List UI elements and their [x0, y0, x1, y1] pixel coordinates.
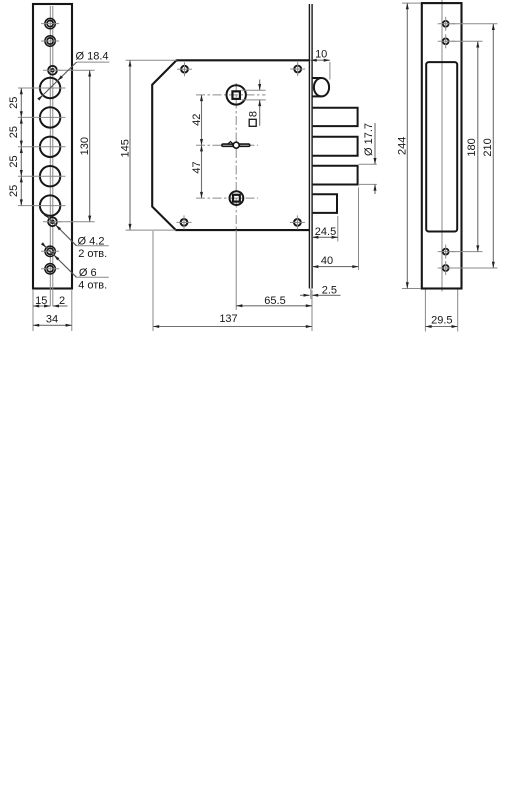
hole diam 4.2 bottom — [48, 217, 57, 226]
hole diam 18.4 number 3 — [40, 137, 60, 157]
dimension 244 extension bottom — [402, 288, 421, 290]
keyhole slot — [222, 142, 250, 149]
svg-text:25: 25 — [8, 155, 20, 167]
hole diam 18.4 number 1 — [40, 78, 60, 98]
centerline of hole 2 — [18, 116, 66, 118]
leader to hole 4.2 — [45, 214, 77, 246]
bolt 2 — [313, 137, 358, 156]
dimension 25 label 1 — [8, 97, 20, 109]
centerline of hole 5 — [18, 205, 66, 207]
svg-text:25: 25 — [8, 126, 20, 138]
svg-text:Ø 17.7: Ø 17.7 — [363, 123, 375, 156]
svg-text:24.5: 24.5 — [315, 226, 336, 238]
strike screw hole 4 — [443, 265, 449, 271]
dimension 180 — [477, 41, 479, 251]
lower spindle hub — [230, 191, 244, 205]
dimension diam 17.7 — [374, 123, 376, 164]
svg-text:2 отв.: 2 отв. — [78, 248, 107, 260]
dimension 24.5 extension — [337, 216, 339, 242]
countersunk screw hole bottom 1 — [45, 246, 55, 256]
body screw hole bottom-left — [181, 219, 188, 226]
dimension 42 — [201, 95, 203, 145]
svg-text:244: 244 — [396, 137, 408, 155]
forend strip left edge — [308, 4, 310, 289]
dimension 2 — [53, 305, 68, 307]
dimension 47 — [201, 145, 203, 198]
faceplate hole axis centerline — [49, 6, 51, 306]
dimension square 8 — [259, 80, 261, 91]
dimension 137 — [153, 326, 312, 328]
dimension 145 extension bottom — [126, 229, 176, 231]
dimension 25 label 4 — [8, 185, 20, 197]
svg-text:42: 42 — [191, 114, 203, 126]
svg-text:180: 180 — [466, 138, 478, 156]
dimension 130 extension lines — [57, 69, 95, 71]
upper spindle hub — [227, 85, 246, 104]
svg-text:137: 137 — [219, 313, 237, 325]
svg-text:15: 15 — [35, 295, 47, 307]
svg-text:2: 2 — [59, 295, 65, 307]
dimension 29.5 — [425, 326, 457, 328]
spindle centerline extension — [235, 230, 237, 310]
dimension 210 extensions — [452, 23, 498, 25]
dimension 130 — [89, 70, 91, 222]
strike screw hole 3 — [443, 249, 449, 255]
dimension 244 extension top — [402, 2, 421, 4]
bolt 3 — [313, 166, 358, 185]
dimension 40 extension — [358, 188, 360, 271]
extension line faceplate right edge — [71, 290, 73, 331]
countersunk screw hole top 1 — [45, 18, 55, 28]
dimension diam 17.7 extensions — [359, 163, 377, 165]
svg-text:25: 25 — [8, 97, 20, 109]
strike plate cutout — [426, 62, 457, 231]
dimension 34 — [33, 324, 72, 326]
label 4.2 underline — [77, 245, 109, 247]
dimension 15 — [33, 305, 50, 307]
dimension 2.5 — [300, 294, 310, 296]
dimension 65.5 extension right — [311, 290, 313, 331]
lock body outline — [152, 60, 309, 230]
svg-text:Ø 18.4: Ø 18.4 — [75, 51, 108, 63]
upper spindle square 8mm — [232, 91, 240, 99]
svg-text:4 отв.: 4 отв. — [78, 280, 107, 292]
dimension 145 extension top — [126, 59, 177, 61]
dimension 145 — [129, 60, 131, 230]
svg-text:65.5: 65.5 — [264, 295, 285, 307]
bolt 1 — [313, 108, 358, 126]
label 18.4 underline — [77, 61, 110, 63]
hole diam 18.4 number 4 — [40, 166, 60, 186]
dimension 24.5 — [312, 236, 338, 238]
centerline of hole 3 — [18, 146, 66, 148]
hole diam 4.2 top — [48, 66, 57, 75]
dimension 25 stack line — [20, 88, 22, 206]
centerline of hole 1 — [18, 87, 66, 89]
svg-text:40: 40 — [321, 255, 333, 267]
latch bolt — [313, 194, 337, 213]
dimension 29.5 extensions — [424, 290, 426, 332]
dimension 40 — [312, 266, 358, 268]
strike plate outline — [422, 3, 462, 288]
countersunk screw hole top 2 — [45, 36, 55, 46]
strike screw hole 1 — [443, 21, 449, 27]
svg-text:145: 145 — [119, 139, 131, 157]
upper spindle centerline — [196, 94, 266, 96]
dimension 180 extensions — [452, 40, 483, 42]
svg-text:47: 47 — [191, 161, 203, 173]
spindle vertical centerline — [235, 83, 237, 230]
deadbolt round bolt — [314, 78, 329, 96]
svg-text:2.5: 2.5 — [322, 284, 337, 296]
faceplate front view outline — [33, 4, 72, 289]
square symbol for 8 — [249, 119, 256, 126]
svg-text:130: 130 — [79, 137, 91, 155]
countersunk screw hole bottom 2 — [45, 264, 55, 274]
svg-text:34: 34 — [46, 314, 58, 326]
label 6 underline — [77, 276, 109, 278]
dimension 25 label 3 — [8, 155, 20, 167]
lower spindle centerline — [196, 197, 258, 199]
keyhole centerline — [196, 144, 258, 146]
strike screw hole 2 — [443, 38, 449, 44]
dimension 65.5 — [236, 305, 312, 307]
hole diam 18.4 number 2 — [40, 107, 60, 127]
svg-text:8: 8 — [247, 111, 259, 117]
leader to hole 18.4 — [39, 62, 77, 99]
extension line faceplate left edge — [32, 290, 34, 331]
hole diam 18.4 number 5 — [40, 195, 60, 215]
centerline of hole 4 — [18, 175, 66, 177]
strip bottom extension — [310, 289, 312, 300]
dimension square 8 extensions — [242, 89, 266, 91]
dimension 137 extension left — [152, 231, 154, 331]
body screw hole top-left — [181, 66, 188, 73]
faceplate mid centerline — [52, 6, 54, 306]
body screw hole bottom-right — [294, 219, 301, 226]
svg-text:29.5: 29.5 — [431, 315, 452, 327]
svg-text:210: 210 — [482, 138, 494, 156]
forend strip right edge — [311, 4, 313, 289]
svg-text:10: 10 — [315, 48, 327, 60]
svg-text:25: 25 — [8, 185, 20, 197]
lower spindle square — [233, 195, 240, 202]
strike plate centerline — [441, 0, 443, 292]
dimension 25 label 2 — [8, 126, 20, 138]
leader to countersunk hole — [42, 243, 76, 277]
dimension 10 extension — [329, 62, 331, 80]
dimension 210 — [492, 24, 494, 268]
body screw hole top-right — [294, 66, 301, 73]
dimension 244 — [406, 3, 408, 288]
